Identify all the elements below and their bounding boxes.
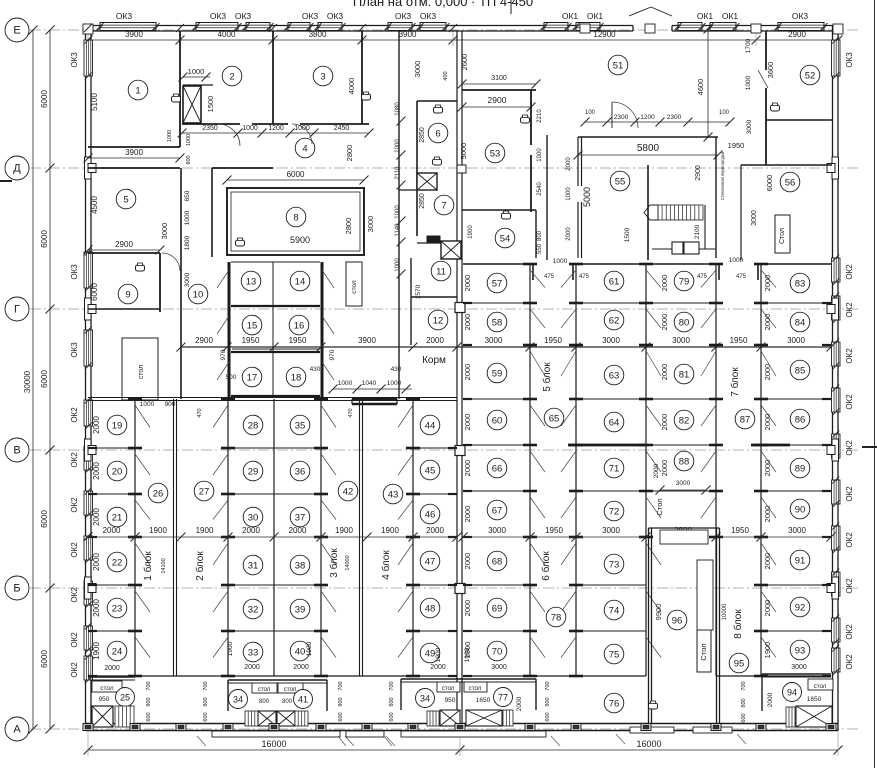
connector box on center wall [457,165,466,173]
svg-text:3600: 3600 [766,62,775,79]
room number 9 [118,284,138,304]
svg-text:2000: 2000 [463,600,472,617]
svg-text:20: 20 [112,466,123,477]
room number 33 [243,642,263,662]
axis column plate left [85,298,92,320]
svg-text:700: 700 [741,681,747,690]
svg-text:92: 92 [795,602,806,613]
porch slabs right half [630,727,674,733]
stair ladder [786,707,795,727]
stair ladder [295,711,308,726]
svg-text:1500: 1500 [206,96,215,113]
window [678,23,702,31]
stall divider [272,262,274,398]
room number 41 [294,690,313,709]
porch slab left [346,731,384,737]
svg-text:ОК1: ОК1 [562,11,579,21]
wall tick marks [84,24,92,32]
room number 30 [243,507,263,527]
wall stub [88,630,97,632]
svg-text:2110: 2110 [395,166,401,180]
vestibule cluster 94 [762,673,831,675]
svg-text:14: 14 [295,276,306,287]
svg-text:2000: 2000 [660,364,669,381]
room number 94 [783,683,802,702]
svg-text:48: 48 [425,603,436,614]
sanitary fixture [172,96,181,102]
room number 81 [674,364,694,384]
room number 45 [420,460,440,480]
axis column plate left [85,439,92,461]
svg-text:1000: 1000 [167,130,173,142]
room number 4 [295,138,315,158]
svg-text:87: 87 [740,414,751,425]
svg-text:1900: 1900 [196,526,214,535]
svg-text:ОК2: ОК2 [845,654,854,670]
wall stub [463,630,472,632]
top dimension chain [88,39,838,41]
svg-text:6000: 6000 [90,283,99,301]
stall divider x228 [227,399,229,676]
stair shaft [92,706,113,727]
axis line Д [30,167,858,169]
svg-text:3000: 3000 [791,664,807,671]
feeder wall left [228,262,231,398]
svg-text:2000: 2000 [293,664,309,671]
svg-text:2000: 2000 [289,526,307,535]
svg-text:2600: 2600 [460,54,469,71]
axis bubble Е [5,18,29,42]
svg-text:2000: 2000 [660,314,669,331]
svg-text:6000: 6000 [40,370,49,388]
svg-text:63: 63 [609,370,620,381]
svg-text:93: 93 [795,645,806,656]
window [832,480,841,504]
room number 22 [107,552,127,572]
svg-text:5100: 5100 [90,93,99,111]
svg-text:9: 9 [125,289,130,300]
svg-text:800: 800 [146,697,152,706]
room number 71 [604,458,624,478]
svg-text:62: 62 [609,315,620,326]
svg-text:5: 5 [123,194,128,205]
door swing arc room 5 [162,253,180,271]
axis bubble В [5,438,29,462]
entrance canopy gable [629,7,651,16]
wall y165 [741,164,832,166]
svg-text:6000: 6000 [40,230,49,248]
svg-text:2000: 2000 [653,463,660,478]
svg-text:2000: 2000 [92,416,101,434]
room number 29 [243,461,263,481]
svg-text:5000: 5000 [459,143,468,160]
svg-text:ОК2: ОК2 [845,578,854,594]
stall row lines right half [463,302,530,304]
svg-text:ОК2: ОК2 [845,532,854,548]
svg-text:1900: 1900 [468,225,474,239]
svg-text:2000: 2000 [92,508,101,526]
left dimension chain 30000 [32,30,34,729]
svg-text:2900: 2900 [695,165,702,181]
stall area top wall left half [88,397,457,399]
svg-text:77: 77 [498,692,508,702]
room number 10 [188,284,208,304]
wall y297 [411,296,457,298]
wall x160 [159,253,161,312]
svg-text:6000: 6000 [40,510,49,528]
stall row lines left half [88,447,135,449]
svg-text:30000: 30000 [23,370,32,393]
svg-text:37: 37 [295,512,306,523]
room number 67 [487,500,507,520]
svg-text:2800: 2800 [345,145,354,162]
svg-text:стол: стол [138,365,145,379]
svg-text:3000: 3000 [787,336,805,345]
room number 13 [241,271,261,291]
room number 77 [494,688,513,707]
window [84,446,93,470]
svg-text:43: 43 [388,489,399,500]
room number 1 [128,80,148,100]
svg-text:4: 4 [302,143,307,154]
svg-text:21: 21 [112,512,123,523]
room number 78 [546,607,566,627]
window [832,572,841,596]
room number 8 [286,207,306,227]
svg-text:2000: 2000 [242,526,260,535]
wall stub [822,398,831,400]
room number 25 [116,688,135,707]
svg-text:2850: 2850 [419,127,426,143]
svg-text:800: 800 [389,697,395,706]
trough bars y400 [352,398,397,400]
svg-text:95: 95 [734,658,745,669]
wall stub [88,675,97,677]
svg-text:3000: 3000 [788,526,806,535]
svg-text:58: 58 [492,317,503,328]
axis bubble А [5,717,29,741]
svg-text:14100: 14100 [161,558,167,573]
svg-text:ОК2: ОК2 [845,394,854,410]
svg-text:6000: 6000 [40,90,49,108]
svg-text:2000: 2000 [92,599,101,617]
svg-text:1000: 1000 [387,380,402,387]
svg-text:1900: 1900 [335,526,353,535]
svg-text:88: 88 [679,456,690,467]
svg-text:1: 1 [135,85,140,96]
stol rect in 96 [697,630,711,672]
wall stub [463,675,472,677]
svg-text:49: 49 [425,648,436,659]
svg-text:ОК2: ОК2 [845,264,854,280]
stall divider x646 [645,264,647,676]
svg-text:2900: 2900 [115,240,133,249]
exterior wall bottom [86,723,839,725]
wall stub [448,447,457,449]
room55 left wall a [577,137,579,186]
room number 7 [434,195,454,215]
svg-text:1000: 1000 [140,401,155,408]
svg-text:1650: 1650 [807,696,822,703]
svg-text:1140: 1140 [395,223,401,237]
svg-text:3900: 3900 [358,336,376,345]
svg-text:430: 430 [391,366,402,373]
axis column plate top [645,24,655,33]
wall x531 b [530,155,532,212]
axis column plate right sq [827,584,835,593]
dimension chain y347 [181,346,831,348]
stair shaft [277,711,295,726]
left margin mark [0,180,12,182]
stair shaft [440,710,460,726]
svg-text:89: 89 [795,463,806,474]
column mark [455,303,465,313]
svg-text:700: 700 [545,681,551,690]
axis D walls [88,167,180,169]
svg-text:29: 29 [248,466,259,477]
svg-text:59: 59 [492,368,503,379]
stall divider x716 [715,264,717,676]
wall x741 [740,165,742,260]
svg-text:1650: 1650 [476,697,491,704]
window [288,23,310,31]
svg-text:57: 57 [492,278,503,289]
svg-text:ОК3: ОК3 [420,11,437,21]
room number 62 [604,310,624,330]
svg-text:ОК3: ОК3 [116,11,133,21]
svg-text:6000: 6000 [287,170,305,179]
svg-text:6000: 6000 [40,650,49,668]
svg-text:ОК1: ОК1 [587,11,604,21]
svg-text:1900: 1900 [464,647,471,662]
wall stub [822,490,831,492]
svg-text:475: 475 [697,274,708,280]
svg-text:2000: 2000 [463,275,472,292]
room number 72 [604,501,624,521]
wall stub [448,584,457,586]
svg-text:2000: 2000 [426,336,444,345]
svg-text:ОК2: ОК2 [70,497,79,513]
wall y101 [417,100,457,102]
room number 43 [383,484,403,504]
room number 63 [604,365,624,385]
svg-text:33: 33 [248,647,259,658]
svg-text:100: 100 [719,110,730,116]
room number 66 [487,458,507,478]
window [100,23,156,31]
wall y90 room53 top [462,89,536,91]
wall x547 [546,135,548,260]
stall divider x576 [575,264,577,676]
svg-text:ОК3: ОК3 [210,11,227,21]
svg-text:2850: 2850 [419,193,426,209]
svg-text:6000: 6000 [765,175,774,192]
room number 74 [604,600,624,620]
svg-text:84: 84 [795,317,806,328]
svg-text:600: 600 [389,712,395,721]
room55 top wall [578,136,718,138]
svg-text:3000: 3000 [676,480,691,487]
room number 92 [790,597,810,617]
door arc room 55 [612,102,638,128]
svg-text:Г: Г [14,303,20,315]
svg-text:76: 76 [609,698,620,709]
room number 79 [674,271,694,291]
svg-text:30: 30 [248,512,259,523]
corridor double wall 3|4 blok [359,399,361,676]
room number 82 [674,410,694,430]
svg-text:3000: 3000 [746,119,753,134]
svg-text:1000: 1000 [395,258,401,272]
stair shaft [417,173,437,190]
svg-text:2000: 2000 [463,506,472,523]
svg-text:26: 26 [153,488,164,499]
svg-text:2000: 2000 [463,553,472,570]
axis bubble Г [5,297,29,321]
room number 88 [674,451,694,471]
svg-text:2000: 2000 [103,526,121,535]
svg-text:3900: 3900 [125,148,143,157]
svg-text:3000: 3000 [485,336,503,345]
room number 54 [495,228,515,248]
svg-text:83: 83 [795,278,806,289]
wall stub [463,344,472,346]
stall divider x413 [412,399,414,676]
room number 75 [604,644,624,664]
svg-text:Стол: Стол [699,643,708,660]
svg-text:600: 600 [146,712,152,721]
feed trough lines [231,395,320,397]
stair shaft [796,706,832,727]
svg-text:2000: 2000 [92,553,101,571]
right margin mark [862,446,877,448]
stair ladder [427,711,439,726]
room number 93 [790,640,810,660]
wall stub [88,447,97,449]
svg-text:стол: стол [351,280,358,294]
wall stub [88,493,97,495]
svg-text:ОК2: ОК2 [845,302,854,318]
svg-text:Стол: Стол [779,228,786,244]
svg-text:52: 52 [805,70,816,81]
room number 84 [790,312,810,332]
axis column plate left sq [88,305,96,314]
wall y243 [417,242,457,244]
svg-text:ОК3: ОК3 [70,264,79,280]
room number 64 [604,412,624,432]
svg-text:28: 28 [248,420,259,431]
axis column plate right [832,298,839,320]
svg-text:1000: 1000 [184,210,191,225]
svg-text:800: 800 [741,698,747,707]
window [84,656,93,680]
svg-text:800: 800 [537,230,543,241]
svg-text:1 блок: 1 блок [142,551,154,581]
svg-text:2000: 2000 [463,414,472,431]
svg-text:3000: 3000 [672,336,690,345]
svg-text:1950: 1950 [242,336,260,345]
svg-text:1900: 1900 [381,526,399,535]
axis column plate left sq [88,446,96,455]
svg-text:ОК2: ОК2 [845,440,854,456]
svg-text:1000: 1000 [729,257,744,264]
room number 65 [544,408,564,428]
svg-text:82: 82 [679,415,690,426]
svg-text:1000: 1000 [566,187,572,201]
stol room 56 [775,215,790,253]
stol cabinet [122,338,158,400]
svg-text:2000: 2000 [767,692,774,707]
svg-text:2210: 2210 [537,109,543,123]
svg-text:800: 800 [282,699,293,705]
exterior wall top (right of entrance) [672,25,838,27]
wall stub [448,675,457,677]
axis column plate right sq [827,305,835,314]
svg-text:35: 35 [295,420,306,431]
svg-text:1900: 1900 [435,647,442,662]
stall gate stubs left half [128,398,142,401]
sheet border [874,0,876,768]
shelf rects in 96 [660,530,708,544]
svg-text:1900: 1900 [306,641,313,656]
room number 5 [116,189,136,209]
wall stub [448,536,457,538]
svg-text:ОК2: ОК2 [70,452,79,468]
axis column plate right sq [827,164,835,173]
axis column plate right sq [827,446,835,455]
window [832,526,841,550]
svg-text:1900: 1900 [92,642,101,660]
room number 36 [290,461,310,481]
window [832,296,841,320]
window [84,491,93,515]
room number 12 [428,310,448,330]
axis column plate left sq [88,164,96,173]
svg-text:3000: 3000 [602,336,620,345]
room number 68 [487,551,507,571]
svg-text:6 блок: 6 блок [540,551,552,581]
svg-text:74: 74 [609,605,620,616]
window [84,330,93,366]
wall x766 lower [765,88,767,165]
svg-text:67: 67 [492,505,503,516]
stall divider x321 [320,399,322,676]
gate diagonals stall block 13-18 [322,270,334,288]
svg-text:ОК3: ОК3 [327,11,344,21]
svg-text:3000: 3000 [488,526,506,535]
room number 14 [290,271,310,291]
svg-text:1000: 1000 [553,258,568,265]
svg-text:950: 950 [99,696,110,703]
svg-text:600: 600 [338,712,344,721]
room number 32 [243,599,263,619]
svg-text:71: 71 [609,463,620,474]
heavy bars y445 [568,444,645,447]
stall bottom wall right-b [716,675,831,677]
wall x417 [416,101,418,236]
svg-text:2000: 2000 [660,460,669,477]
svg-text:3000: 3000 [160,223,169,240]
room number 87 [735,409,755,429]
svg-text:ОК1: ОК1 [722,11,739,21]
svg-text:70: 70 [492,646,503,657]
svg-text:470: 470 [197,408,203,417]
axis column plate left [85,577,92,599]
door swing arc room 2 [218,124,240,146]
porch slab cluster3 [401,731,546,737]
svg-text:2000: 2000 [463,364,472,381]
stair ladder [115,706,134,727]
